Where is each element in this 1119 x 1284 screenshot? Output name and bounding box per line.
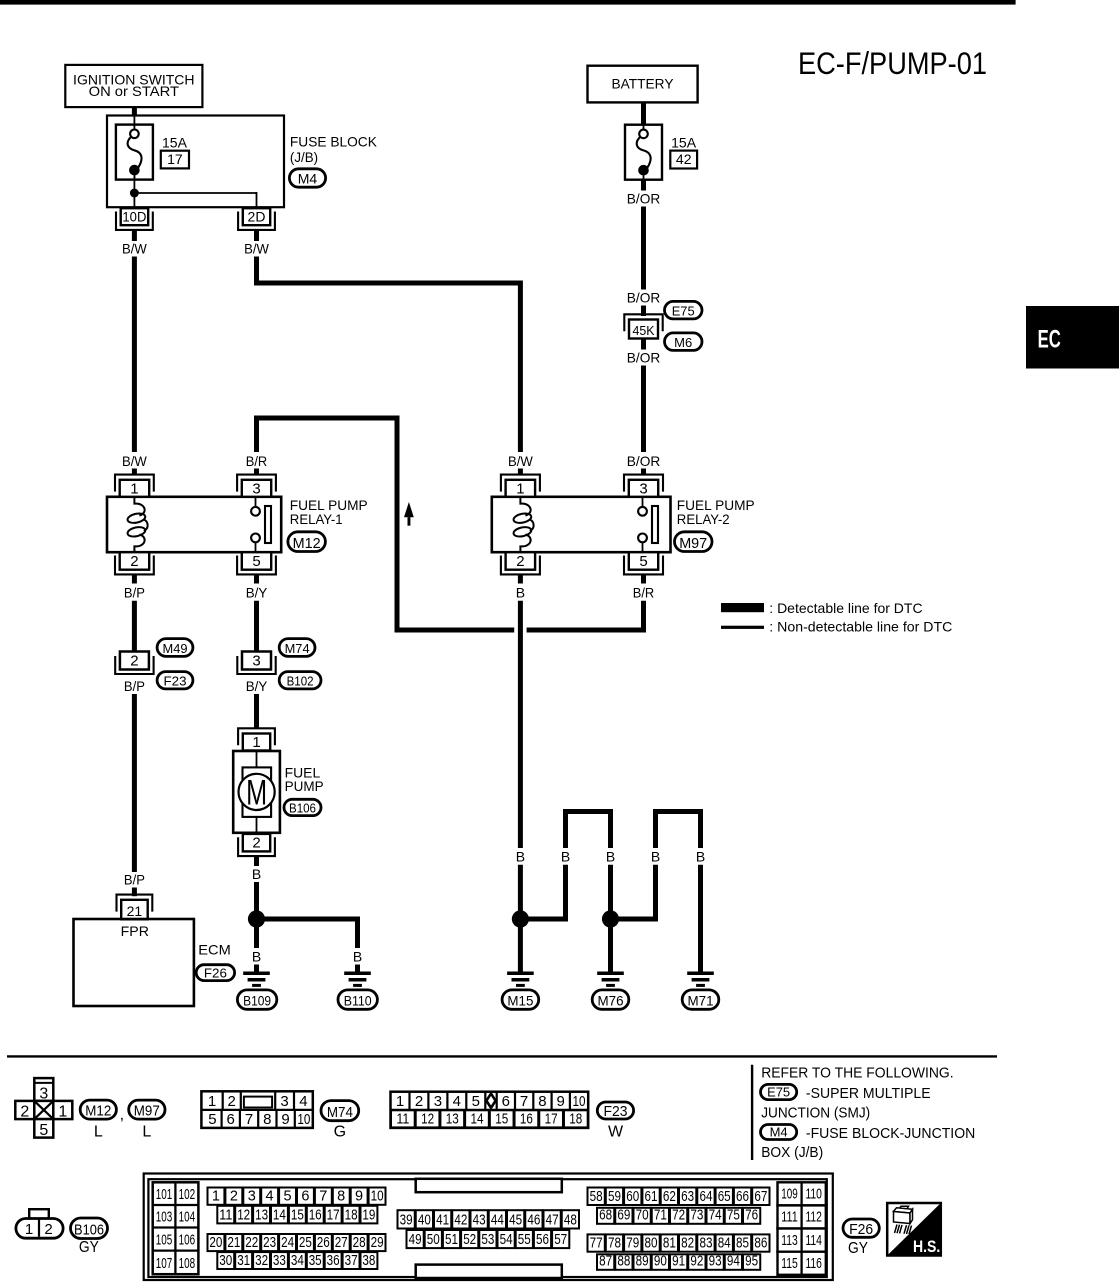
svg-text:1: 1 [212, 1189, 220, 1205]
ground oval B109 [237, 990, 276, 1009]
svg-text:90: 90 [654, 1254, 667, 1270]
svg-text:BATTERY: BATTERY [612, 76, 675, 92]
wire M15 dot to ground [518, 926, 523, 972]
relay connector face view (M12/M97 cross) [34, 1078, 53, 1101]
svg-text:49: 49 [409, 1232, 422, 1248]
ECM face pins 39-48 row [398, 1210, 415, 1228]
wire fuse to 10D (inside fuse block) [133, 175, 135, 207]
svg-text:102: 102 [179, 1186, 196, 1203]
ECM face pins 87-95 row [597, 1254, 614, 1270]
svg-text:B/W: B/W [122, 453, 148, 469]
relay FUEL PUMP RELAY-1 box (M12) [107, 497, 281, 552]
svg-text:5: 5 [284, 1189, 292, 1205]
svg-text:H.S.: H.S. [913, 1238, 940, 1256]
wire stub relay-1 pin 5 [254, 574, 259, 583]
wire SMJ to relay-2 pin 3 [641, 366, 646, 453]
svg-text:9: 9 [355, 1189, 363, 1205]
terminal 10D [121, 208, 149, 225]
relay-2 pin 5 [629, 552, 658, 570]
M74 face key slot [244, 1097, 272, 1108]
svg-text:4: 4 [453, 1093, 461, 1110]
svg-text:3: 3 [248, 1189, 256, 1205]
svg-text:10: 10 [371, 1189, 384, 1205]
svg-text:11: 11 [219, 1207, 232, 1223]
svg-text:B/R: B/R [633, 584, 655, 600]
svg-text:116: 116 [805, 1255, 822, 1272]
svg-text:18: 18 [569, 1110, 582, 1127]
relay-1 pin 3 [237, 475, 276, 492]
svg-text:4: 4 [266, 1189, 274, 1205]
svg-text:71: 71 [654, 1208, 667, 1224]
svg-text:B/P: B/P [124, 678, 145, 694]
svg-text:B/W: B/W [122, 241, 148, 257]
svg-text:FUSE BLOCK: FUSE BLOCK [290, 134, 378, 150]
svg-text:111: 111 [781, 1209, 798, 1226]
svg-text:9: 9 [557, 1093, 565, 1110]
ground symbol B109 [243, 972, 270, 976]
F23 face key diamond [486, 1094, 495, 1108]
svg-text:M71: M71 [688, 994, 714, 1009]
svg-text:M: M [246, 774, 267, 813]
ECM connector F26 face view outer shell [144, 1174, 833, 1281]
svg-text:55: 55 [518, 1232, 531, 1248]
svg-text:91: 91 [672, 1254, 685, 1270]
connector oval M74 (junction) [279, 639, 315, 657]
connector oval M4 [289, 169, 325, 187]
svg-text:110: 110 [805, 1186, 822, 1203]
svg-text:8: 8 [538, 1093, 546, 1110]
svg-text:M76: M76 [598, 994, 624, 1009]
svg-text:EC-F/PUMP-01: EC-F/PUMP-01 [798, 45, 987, 81]
svg-text:F26: F26 [849, 1221, 873, 1238]
svg-text:105: 105 [156, 1231, 173, 1248]
svg-text:RELAY-2: RELAY-2 [677, 511, 730, 527]
svg-text:B106: B106 [74, 1222, 104, 1239]
wire relay-1 pin 5 to junction B102 [254, 601, 259, 652]
svg-text:5: 5 [472, 1093, 480, 1110]
svg-text:65: 65 [718, 1189, 731, 1205]
svg-text:M12: M12 [85, 1103, 111, 1120]
svg-text:M74: M74 [327, 1104, 353, 1121]
svg-text:: Detectable line for DTC: : Detectable line for DTC [769, 600, 922, 616]
relay FUEL PUMP RELAY-2 box (M97) [492, 497, 671, 552]
svg-text:17: 17 [167, 151, 183, 167]
svg-text:20: 20 [209, 1235, 222, 1251]
junction dot M15 [512, 910, 529, 927]
svg-text:82: 82 [681, 1236, 694, 1252]
svg-text:10D: 10D [122, 208, 146, 224]
ECM face top key tab [416, 1179, 562, 1192]
connector oval F23 (face view) [597, 1102, 633, 1119]
relay-2 pin 2 [506, 552, 535, 570]
fuse number box 42 [670, 151, 697, 169]
svg-text:73: 73 [690, 1208, 703, 1224]
svg-text:3: 3 [639, 480, 647, 497]
ECM face pins 58-67 row [588, 1188, 605, 1206]
svg-text:46: 46 [527, 1212, 540, 1228]
F23 face pins 11-18 [391, 1110, 415, 1127]
SMJ terminal 45K [624, 314, 662, 331]
junction dot M76 [602, 910, 619, 927]
svg-text:59: 59 [608, 1189, 621, 1205]
svg-text:ON or START: ON or START [89, 83, 180, 99]
svg-text:54: 54 [500, 1232, 513, 1248]
svg-text:M4: M4 [298, 171, 318, 187]
svg-text:B110: B110 [344, 994, 372, 1009]
svg-text:22: 22 [245, 1235, 258, 1251]
svg-text:B: B [516, 584, 525, 600]
svg-text:7: 7 [245, 1111, 253, 1128]
terminal 2D [243, 208, 270, 225]
svg-text:1: 1 [58, 1104, 67, 1121]
svg-text:72: 72 [672, 1208, 685, 1224]
svg-text:15A: 15A [671, 134, 697, 150]
svg-text:64: 64 [700, 1189, 713, 1205]
svg-text:JUNCTION (SMJ): JUNCTION (SMJ) [761, 1105, 870, 1122]
wire stub below fuel pump [254, 856, 259, 866]
svg-text:85: 85 [736, 1236, 749, 1252]
connector F23 face view grid [391, 1092, 589, 1128]
ECM face pins 30-38 row [217, 1252, 234, 1269]
svg-text:REFER TO THE FOLLOWING.: REFER TO THE FOLLOWING. [761, 1064, 953, 1081]
svg-text:45K: 45K [633, 323, 655, 338]
wire stub below 2D [254, 230, 259, 241]
relay-1 pin 2 [120, 552, 150, 570]
svg-text:53: 53 [481, 1232, 494, 1248]
svg-text:94: 94 [727, 1254, 740, 1270]
wire relay-1 pin 3 to relay-2 pin 5 (B/R net) [257, 418, 515, 630]
svg-text:28: 28 [353, 1235, 366, 1251]
svg-text:112: 112 [805, 1209, 822, 1226]
svg-text:2: 2 [228, 1093, 236, 1110]
fuse 15A 42 symbol [625, 125, 662, 180]
svg-text:92: 92 [690, 1254, 703, 1270]
svg-text:M4: M4 [770, 1125, 788, 1140]
svg-text:3: 3 [252, 652, 260, 669]
svg-text:69: 69 [617, 1208, 630, 1224]
svg-text:87: 87 [599, 1254, 612, 1270]
svg-text:3: 3 [434, 1093, 442, 1110]
svg-text:B: B [561, 849, 570, 865]
svg-text:107: 107 [156, 1255, 173, 1272]
svg-text:77: 77 [590, 1236, 603, 1252]
svg-text:B: B [516, 849, 525, 865]
power source box IGNITION SWITCH ON or START [65, 65, 202, 107]
svg-text:86: 86 [754, 1236, 767, 1252]
connector oval M12 [288, 532, 326, 552]
svg-text:BOX (J/B): BOX (J/B) [761, 1144, 823, 1161]
svg-text:62: 62 [663, 1189, 676, 1205]
svg-text:2D: 2D [248, 208, 266, 224]
wire M76 dot to ground [608, 926, 613, 972]
ECM face pins 109-116 block [778, 1182, 826, 1205]
svg-text:M15: M15 [507, 994, 533, 1009]
svg-text:14: 14 [471, 1110, 484, 1127]
svg-text:PUMP: PUMP [285, 778, 324, 794]
svg-text:18: 18 [345, 1207, 358, 1223]
wire stub below 45K [641, 339, 646, 350]
svg-text:B: B [606, 849, 615, 865]
svg-text:74: 74 [709, 1208, 722, 1224]
svg-text:2: 2 [516, 553, 524, 570]
svg-text:75: 75 [727, 1208, 740, 1224]
svg-text:12: 12 [421, 1110, 434, 1127]
svg-text:103: 103 [156, 1208, 173, 1225]
wire stub relay-2 pin 5 [641, 574, 646, 583]
svg-text:B109: B109 [243, 994, 271, 1009]
svg-text:8: 8 [263, 1111, 271, 1128]
wire fuse to 2D (inside fuse block) [134, 192, 256, 194]
connector oval B102 [279, 672, 321, 689]
wire relay-2 pin 2 down to grounds [518, 601, 523, 848]
svg-text:30: 30 [219, 1253, 232, 1269]
ECM face pins 77-86 row [588, 1234, 605, 1251]
fuel pump pin 1 [238, 728, 275, 745]
H.S. inspection mark [887, 1203, 941, 1256]
svg-text:13: 13 [446, 1110, 459, 1127]
connector oval M4 (note) [761, 1125, 797, 1140]
ground oval M71 [682, 990, 719, 1009]
svg-text:104: 104 [179, 1208, 196, 1225]
svg-text:48: 48 [564, 1212, 577, 1228]
svg-text:8: 8 [337, 1189, 345, 1205]
svg-text:M12: M12 [293, 535, 321, 552]
svg-text:76: 76 [745, 1208, 758, 1224]
svg-text:39: 39 [400, 1212, 413, 1228]
svg-text:L: L [94, 1123, 103, 1140]
connector oval E75 (note) [761, 1084, 797, 1099]
wire fuel pump to junction dot [254, 882, 259, 912]
svg-text:36: 36 [327, 1253, 340, 1269]
svg-text:FPR: FPR [121, 923, 149, 939]
svg-text:66: 66 [736, 1189, 749, 1205]
ground oval M76 [592, 990, 629, 1009]
connector oval F23 (junction) [157, 672, 193, 689]
svg-text:2: 2 [230, 1189, 238, 1205]
svg-text:42: 42 [676, 151, 692, 167]
wire bridge M76 to M71 [618, 865, 656, 919]
svg-text:67: 67 [754, 1189, 767, 1205]
relay-2 coil [520, 497, 530, 516]
svg-text:15: 15 [495, 1110, 508, 1127]
svg-text:21: 21 [127, 903, 143, 919]
svg-text:5: 5 [252, 553, 260, 570]
svg-text:89: 89 [636, 1254, 649, 1270]
wire ignition switch to fuse block [132, 107, 137, 115]
svg-text:-SUPER MULTIPLE: -SUPER MULTIPLE [806, 1085, 931, 1102]
svg-text:16: 16 [309, 1207, 322, 1223]
svg-text:E75: E75 [672, 304, 695, 319]
svg-text:17: 17 [327, 1207, 340, 1223]
svg-text:B/OR: B/OR [627, 190, 661, 206]
svg-text:15: 15 [291, 1207, 304, 1223]
ECM box [74, 919, 194, 1006]
ECM face pins 49-57 row [407, 1230, 424, 1248]
svg-text:101: 101 [156, 1186, 173, 1203]
svg-text:M97: M97 [679, 535, 707, 552]
svg-text:L: L [142, 1123, 151, 1140]
svg-text:51: 51 [445, 1232, 458, 1248]
svg-text:37: 37 [345, 1253, 358, 1269]
svg-text:108: 108 [179, 1255, 196, 1272]
fuse block (J/B) M4 box [107, 116, 284, 208]
svg-text:2: 2 [20, 1104, 29, 1121]
legend detectable line sample [721, 603, 764, 612]
svg-text:GY: GY [848, 1240, 868, 1257]
svg-text:47: 47 [546, 1212, 559, 1228]
svg-text:1: 1 [252, 734, 260, 751]
svg-text:B/OR: B/OR [627, 349, 661, 365]
svg-text:6: 6 [227, 1111, 235, 1128]
svg-text:38: 38 [362, 1253, 375, 1269]
svg-text:25: 25 [299, 1235, 312, 1251]
relay-1 contact [255, 497, 257, 507]
svg-text:B/Y: B/Y [246, 584, 268, 600]
svg-text:10: 10 [573, 1093, 586, 1110]
svg-text:B/P: B/P [124, 872, 145, 888]
svg-text:113: 113 [781, 1232, 798, 1249]
svg-text:2: 2 [130, 553, 138, 570]
connector oval M6 [665, 333, 703, 351]
svg-text:115: 115 [781, 1255, 798, 1272]
svg-text:84: 84 [718, 1236, 731, 1252]
svg-text:F23: F23 [164, 674, 187, 689]
connector M74 face view grid [201, 1091, 312, 1128]
flow arrow (up) [404, 502, 414, 517]
svg-text:34: 34 [291, 1253, 304, 1269]
wire junction to ECM terminal 21 [132, 694, 137, 872]
ground symbol M76 [597, 972, 624, 976]
fuse number box 17 [161, 151, 189, 169]
svg-text:26: 26 [317, 1235, 330, 1251]
svg-text:6: 6 [502, 1093, 510, 1110]
svg-text:15A: 15A [162, 134, 188, 150]
svg-text:35: 35 [309, 1253, 322, 1269]
svg-text:F23: F23 [604, 1103, 628, 1120]
svg-text:44: 44 [491, 1212, 504, 1228]
relay-2 contact [642, 497, 644, 507]
svg-text:88: 88 [617, 1254, 630, 1270]
svg-text:79: 79 [626, 1236, 639, 1252]
svg-text:23: 23 [263, 1235, 276, 1251]
svg-text:B: B [252, 866, 261, 882]
ECM face pins 20-29 row [208, 1234, 225, 1251]
wire stub relay-1 pin 2 [132, 574, 137, 583]
svg-text:F26: F26 [204, 966, 227, 981]
svg-text:10: 10 [297, 1111, 310, 1128]
svg-text:12: 12 [237, 1207, 250, 1223]
ECM face bottom key tab [416, 1265, 562, 1278]
connector oval M97 [675, 532, 713, 552]
wire stub relay-2 pin 2 [518, 574, 523, 583]
svg-text:3: 3 [280, 1093, 288, 1110]
ECM face pins 101-108 block [153, 1182, 199, 1274]
svg-text:61: 61 [645, 1189, 658, 1205]
svg-text:58: 58 [590, 1189, 603, 1205]
connector oval B106 (face view) [71, 1218, 108, 1239]
wire junction to fuel pump pin 1 [254, 694, 259, 729]
svg-text:16: 16 [520, 1110, 533, 1127]
svg-text:60: 60 [626, 1189, 639, 1205]
legend non-detectable line sample [721, 626, 764, 629]
svg-text:21: 21 [227, 1235, 240, 1251]
svg-text:3: 3 [39, 1085, 48, 1102]
svg-text:M74: M74 [285, 641, 310, 656]
wire battery to fuse 42 [641, 102, 646, 124]
battery box [588, 66, 698, 103]
ECM face pins 11-19 row [217, 1206, 234, 1224]
svg-text:78: 78 [608, 1236, 621, 1252]
svg-text:6: 6 [301, 1189, 309, 1205]
connector oval M12 (face view) [80, 1100, 116, 1119]
svg-text:B: B [353, 949, 362, 965]
svg-text:5: 5 [208, 1111, 216, 1128]
relay-1 coil [134, 497, 144, 516]
svg-text:2: 2 [44, 1221, 52, 1238]
svg-text:B/P: B/P [124, 584, 145, 600]
svg-text:81: 81 [663, 1236, 676, 1252]
svg-text:45: 45 [509, 1212, 522, 1228]
svg-text:2: 2 [415, 1093, 423, 1110]
EC section tab [1026, 306, 1119, 369]
wire bridge M15 to M76 [528, 865, 566, 919]
svg-text:63: 63 [681, 1189, 694, 1205]
svg-text:M6: M6 [674, 335, 692, 350]
svg-text:83: 83 [700, 1236, 713, 1252]
svg-text:5: 5 [639, 553, 647, 570]
fuel pump motor B106 [233, 751, 280, 833]
wire relay-1 pin 2 to junction M49 [132, 601, 137, 652]
junction dot (B109/B110 net) [248, 910, 265, 927]
svg-text:29: 29 [371, 1235, 384, 1251]
svg-text:: Non-detectable line for DTC: : Non-detectable line for DTC [769, 619, 952, 635]
ground oval M15 [502, 990, 539, 1009]
svg-text:95: 95 [745, 1254, 758, 1270]
ground symbol B110 [344, 972, 371, 976]
wire stub below 10D [132, 230, 137, 241]
svg-text:32: 32 [255, 1253, 268, 1269]
page header bar [0, 0, 1016, 5]
svg-text:1: 1 [25, 1221, 33, 1238]
wire 10D to relay-1 pin 1 [132, 257, 137, 453]
svg-text:B: B [651, 849, 660, 865]
ECM face pins 68-76 row [597, 1208, 614, 1224]
connector oval B106 (motor) [284, 799, 321, 815]
svg-text:40: 40 [418, 1212, 431, 1228]
footer divider rule [7, 1055, 997, 1057]
svg-text:52: 52 [463, 1232, 476, 1248]
svg-text:W: W [608, 1123, 624, 1140]
connector oval M97 (face view) [129, 1100, 165, 1119]
svg-text:B: B [696, 849, 705, 865]
svg-text:70: 70 [636, 1208, 649, 1224]
connector oval M49 [157, 639, 193, 657]
svg-text:B: B [252, 949, 261, 965]
relay-1 pin 5 [242, 552, 271, 570]
svg-text:EC: EC [1038, 326, 1061, 354]
svg-text:-FUSE BLOCK-JUNCTION: -FUSE BLOCK-JUNCTION [806, 1125, 975, 1142]
svg-text:7: 7 [520, 1093, 528, 1110]
wire 2D to relay-2 pin 1 [257, 257, 521, 453]
svg-text:2: 2 [252, 835, 260, 852]
svg-text:50: 50 [427, 1232, 440, 1248]
svg-text:ECM: ECM [198, 941, 231, 957]
svg-text:11: 11 [396, 1110, 409, 1127]
svg-text:,: , [120, 1107, 124, 1124]
wire B/OR to SMJ [641, 207, 646, 290]
relay-1 pin 1 [115, 475, 154, 492]
svg-text:13: 13 [255, 1207, 268, 1223]
